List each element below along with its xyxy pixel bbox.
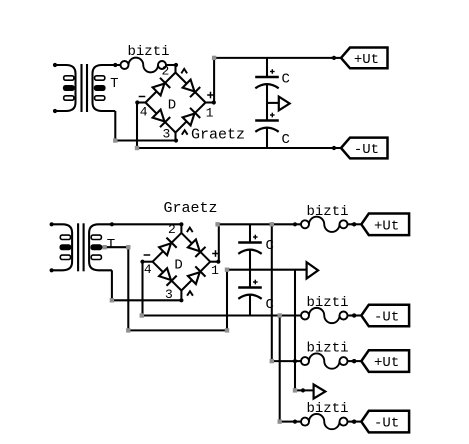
svg-text:D: D — [174, 257, 182, 273]
svg-text:1: 1 — [211, 263, 219, 278]
svg-text:C: C — [282, 72, 290, 88]
svg-text:T: T — [110, 76, 118, 92]
svg-text:-Ut: -Ut — [354, 142, 379, 158]
svg-text:D: D — [168, 98, 176, 114]
svg-text:2: 2 — [168, 222, 176, 237]
svg-text:C: C — [282, 132, 290, 148]
svg-text:Graetz: Graetz — [191, 127, 245, 144]
svg-text:4: 4 — [144, 262, 152, 277]
svg-text:Graetz: Graetz — [163, 200, 217, 217]
svg-text:1: 1 — [206, 106, 214, 121]
svg-text:T: T — [107, 237, 115, 253]
svg-text:-Ut: -Ut — [374, 416, 399, 432]
svg-text:2: 2 — [161, 64, 169, 79]
svg-text:+Ut: +Ut — [374, 218, 399, 234]
svg-text:+Ut: +Ut — [374, 355, 399, 371]
svg-text:+Ut: +Ut — [354, 52, 379, 68]
svg-text:4: 4 — [140, 105, 148, 120]
svg-text:-Ut: -Ut — [374, 310, 399, 326]
svg-text:3: 3 — [162, 126, 170, 141]
